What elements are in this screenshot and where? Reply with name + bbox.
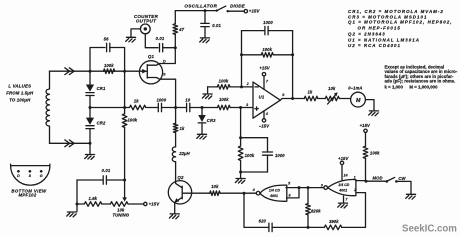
svg-text:+15V: +15V (249, 9, 261, 14)
capacitor 1000 (source coupling) (146, 107, 158, 109)
svg-text:10k: 10k (328, 86, 336, 91)
svg-text:CR3: CR3 (207, 118, 216, 123)
wire meter to ground (365, 100, 374, 111)
svg-text:SeekIC.com: SeekIC.com (402, 224, 457, 235)
capacitor 1000 (pin 3 load) (267, 138, 269, 152)
node tank bottom junction (89, 142, 92, 145)
capacitor 1000 (feedback) (242, 30, 265, 32)
pin dot D (17, 170, 20, 173)
wire cap left leg (76, 180, 78, 204)
node pin3 junction (239, 106, 242, 109)
svg-text:1: 1 (354, 175, 356, 179)
transistor Q2 (2N3643) (168, 181, 191, 204)
svg-text:100k: 100k (262, 47, 272, 52)
svg-text:CW: CW (398, 176, 406, 181)
capacitor 10 (detector coupling) (176, 107, 187, 109)
svg-text:Q1 = MOTOROLA MPF102, HEP802,: Q1 = MOTOROLA MPF102, HEP802, (348, 20, 453, 25)
svg-text:1k: 1k (180, 126, 186, 131)
wire tank bottom line (50, 142, 91, 144)
svg-text:4: 4 (265, 112, 268, 116)
svg-text:1/4 CD: 1/4 CD (269, 189, 281, 193)
svg-text:1000: 1000 (263, 20, 273, 25)
resistor 47 (drain load) (174, 11, 176, 24)
node network top (239, 136, 242, 139)
wire source lead (147, 78, 175, 108)
svg-text:4: 4 (252, 188, 255, 192)
svg-text:100k: 100k (370, 151, 380, 156)
wire jack down (145, 34, 158, 48)
svg-text:0.01: 0.01 (156, 36, 165, 41)
meter M1 0-1mA (351, 92, 366, 107)
svg-text:DIODE: DIODE (230, 4, 246, 9)
svg-text:OUTPUT: OUTPUT (136, 18, 157, 23)
wire pin 6 output (280, 99, 292, 101)
ground (CW) (406, 194, 416, 199)
svg-text:MOD: MOD (372, 176, 382, 181)
node bottom rail junction (307, 226, 310, 229)
svg-text:–15V: –15V (259, 124, 270, 129)
wire pin3 network vertical (240, 108, 242, 138)
node 820k junction (307, 186, 310, 189)
node feedback left (240, 53, 243, 56)
wire pin 1 input (356, 180, 366, 183)
terminal +15V (tuning) (144, 202, 147, 205)
inductor 22uH (172, 147, 175, 162)
node CR3 junction (201, 106, 204, 109)
op-amp U1 (LM301A) (253, 82, 280, 118)
svg-text:Q2: Q2 (177, 175, 184, 180)
transistor Q1 (MPF102 JFET) (139, 61, 162, 84)
ground (CR3) (197, 134, 207, 139)
svg-text:CR3 = MOTOROLA MSD101: CR3 = MOTOROLA MSD101 (348, 14, 428, 19)
resistor 100k (feedback) (242, 54, 262, 56)
resistor 1k (meter) (293, 98, 305, 100)
wire gate1 output (244, 192, 256, 194)
ground (pin 3 network) (235, 179, 245, 184)
varactor CR1 (89, 71, 91, 84)
ground (pin 2) (202, 94, 212, 99)
wire gate1 to gate2 (299, 187, 324, 189)
resistor 100k (gate leak) (104, 69, 115, 74)
wire to tank ground (89, 143, 91, 154)
capacitor 0.01 oscillator bypass (204, 11, 206, 24)
svg-text:Q2 = 2N3643: Q2 = 2N3643 (348, 32, 386, 37)
node drain/counter junction (174, 46, 177, 49)
svg-text:U1 = NATIONAL LM301A: U1 = NATIONAL LM301A (348, 38, 420, 43)
svg-text:CR2: CR2 (97, 120, 106, 125)
svg-text:10: 10 (185, 97, 191, 102)
node gate1 output junction (243, 192, 246, 195)
svg-text:1k: 1k (307, 90, 313, 95)
node varactor midpoint (89, 106, 92, 109)
node tuning ground junction (76, 203, 79, 206)
switch S1 diode contact (227, 10, 229, 12)
svg-text:47: 47 (178, 27, 185, 32)
svg-text:4001: 4001 (338, 188, 347, 192)
resistor 100k (pin 2 to ground) (208, 86, 218, 88)
wire tank top line (50, 70, 137, 72)
rheostat 10k (meter cal) (325, 96, 339, 101)
svg-text:1000: 1000 (275, 153, 285, 158)
svg-text:100k: 100k (245, 153, 255, 158)
NOR gate U2b (1/4 CD4001) (324, 186, 328, 190)
svg-text:k = 1,000 M = 1,000,000: k = 1,000 M = 1,000,000 (385, 84, 439, 89)
wire pin2 ground drop (207, 87, 209, 93)
inductor L1 plug-in coil (49, 71, 51, 89)
ground (Q2 emitter) (169, 214, 179, 219)
svg-text:TUNING: TUNING (112, 212, 129, 217)
ground (gate2 pin 7) (338, 203, 348, 208)
svg-text:1/4 CD: 1/4 CD (338, 183, 350, 187)
ground (tank) (85, 155, 95, 160)
resistor 390k (308, 226, 324, 228)
switch S1 pole (216, 9, 218, 11)
connector J1 counter output (140, 24, 150, 34)
ground (oscillator bypass) (200, 38, 210, 43)
node source junction (174, 106, 177, 109)
coil connector chevrons (bottom) (65, 140, 74, 147)
node tank / CR1 junction (89, 70, 92, 73)
svg-text:G: G (40, 174, 43, 178)
svg-text:100k: 100k (219, 97, 229, 102)
wire gate1 input loop (287, 188, 300, 198)
diode CR3 (201, 108, 203, 115)
capacitor 0.01 (tuning bypass) (77, 179, 103, 181)
svg-text:L VALUES: L VALUES (8, 83, 31, 88)
node pin2 junction (240, 85, 243, 88)
node gate junction (123, 70, 126, 73)
svg-text:100k: 100k (219, 79, 229, 84)
node output junction (291, 97, 294, 100)
wire junction on oscillator rail (204, 9, 207, 12)
svg-text:D: D (163, 59, 166, 64)
node mod junction (365, 180, 368, 183)
wire jack to ground (131, 29, 140, 37)
svg-text:CR1: CR1 (97, 86, 106, 91)
wire feedback right vertical (292, 31, 294, 99)
svg-text:0.01: 0.01 (102, 168, 111, 173)
resistor 820k (307, 188, 309, 204)
svg-text:4001: 4001 (269, 194, 278, 198)
varactor CR2 (89, 108, 91, 118)
resistor 100k (pin 3 input) (202, 107, 218, 109)
svg-text:22μH: 22μH (178, 151, 190, 156)
capacitor 620 (269, 223, 272, 231)
wire network ground drop (240, 172, 242, 178)
ground (counter jack) (126, 37, 136, 42)
wire bottom rail left (244, 193, 269, 227)
wire network bottom rail (241, 171, 268, 173)
wire gate1 input top (286, 187, 299, 189)
switch S2 MOD/CW (386, 180, 389, 183)
ground (tuning) (67, 212, 77, 217)
coil connector chevrons (top) (65, 68, 74, 75)
svg-text:0.01: 0.01 (212, 23, 221, 28)
capacitor 0.01 counter coupling (160, 44, 163, 52)
pin 4 -15V supply (263, 111, 265, 119)
resistor 100k (pin 3 load) (240, 138, 242, 146)
svg-text:MPF102: MPF102 (18, 193, 36, 198)
pin dot G (40, 170, 43, 173)
resistor 1k (bias) (130, 105, 146, 110)
svg-text:10k: 10k (211, 184, 219, 189)
svg-text:S: S (163, 72, 166, 77)
resistor 1.8k (77, 203, 84, 205)
ground (meter) (369, 111, 379, 116)
node feedback right (291, 53, 294, 56)
svg-text:+15V: +15V (360, 123, 371, 128)
resistor 100k (tuning feed) (124, 108, 126, 114)
node network bottom (239, 171, 242, 174)
wire tuning ground drop (76, 204, 78, 211)
svg-text:+15V: +15V (259, 65, 270, 70)
terminal +15V (diode line) (244, 10, 247, 13)
capacitor 56 (feedback) (90, 48, 105, 72)
wire drain lead (147, 48, 175, 65)
wire network top rail (241, 137, 268, 139)
svg-text:620: 620 (259, 219, 267, 224)
svg-text:Q1: Q1 (148, 54, 155, 59)
svg-text:D: D (17, 174, 20, 178)
wire gate-to-bias vertical (124, 71, 126, 107)
svg-text:TO 100μH: TO 100μH (9, 97, 31, 102)
terminal +15V (mod) (364, 129, 367, 132)
NOR gate U2a (1/4 CD4001) (256, 191, 260, 195)
svg-text:1k: 1k (134, 99, 140, 104)
node gate1 input junction (298, 186, 301, 189)
resistor 1k (collector) (175, 108, 177, 124)
svg-text:56: 56 (104, 37, 110, 42)
resistor 100k (mod pullup) (365, 133, 367, 147)
svg-text:U1: U1 (259, 94, 265, 99)
wire feedback left vertical (241, 31, 243, 87)
svg-text:390k: 390k (329, 219, 339, 224)
svg-text:100k: 100k (104, 63, 114, 68)
pin 7 ground lead (343, 196, 345, 203)
svg-text:OR HEP-F0015: OR HEP-F0015 (358, 25, 401, 30)
pin 7 +15V supply (263, 76, 265, 90)
svg-text:1000: 1000 (156, 97, 166, 102)
potentiometer 10k TUNING (110, 202, 128, 207)
node tuning wiper junction (123, 179, 126, 182)
wire pin 2 input (356, 193, 366, 228)
svg-text:1.8k: 1.8k (89, 196, 98, 201)
node bias junction (123, 106, 126, 109)
wire varactor bias line (90, 107, 130, 109)
svg-text:U2 = RCA CD4001: U2 = RCA CD4001 (348, 43, 401, 48)
svg-text:820k: 820k (311, 208, 321, 213)
pin dot S (29, 170, 32, 173)
package outline MPF102 bottom view (11, 164, 50, 185)
pin 14 supply (341, 165, 343, 180)
svg-text:100k: 100k (128, 118, 138, 123)
svg-text:14: 14 (343, 173, 347, 177)
svg-text:0–1mA: 0–1mA (348, 86, 362, 91)
svg-text:FROM 1.5μH: FROM 1.5μH (6, 91, 34, 96)
wire oscillator top rail (175, 10, 216, 12)
wire mod to switch (366, 180, 385, 182)
wire CW contact to ground (396, 181, 411, 193)
resistor 10k (Q2 base) (210, 191, 220, 196)
svg-text:OSCILLATOR: OSCILLATOR (184, 3, 217, 8)
svg-text:+15V: +15V (338, 156, 349, 161)
svg-text:ads (pF); resistances are in o: ads (pF); resistances are in ohms. (385, 79, 456, 84)
svg-text:+15V: +15V (149, 202, 161, 207)
svg-text:M: M (356, 98, 361, 104)
